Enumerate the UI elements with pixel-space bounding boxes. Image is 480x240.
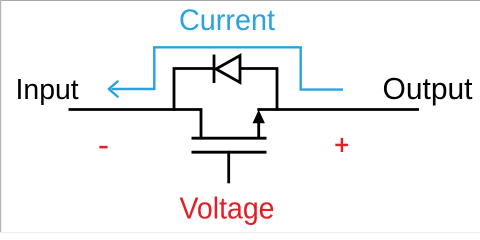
wire current path (blue): [112, 47, 344, 89]
transistor Q1 gate lead: [227, 151, 230, 184]
wire output: [257, 108, 419, 111]
label minus (-): [99, 146, 107, 149]
diode D1 cathode bar: [213, 55, 216, 84]
transistor Q1 source lead: [257, 122, 260, 139]
label plus (+): [335, 138, 348, 152]
transistor Q1 channel line: [192, 137, 267, 140]
svg-text:Current: Current: [179, 4, 276, 37]
transistor Q1 source arrow: [253, 110, 265, 124]
svg-text:Output: Output: [383, 73, 474, 106]
current arrowhead: [109, 81, 118, 96]
wire diode branch left: [174, 69, 213, 111]
wire input: [69, 110, 202, 140]
svg-text:Voltage: Voltage: [180, 191, 275, 226]
svg-text:Input: Input: [16, 73, 79, 105]
diode D1 triangle: [216, 56, 240, 83]
wire diode branch right: [240, 69, 277, 111]
transistor Q1 gate line: [192, 151, 267, 154]
